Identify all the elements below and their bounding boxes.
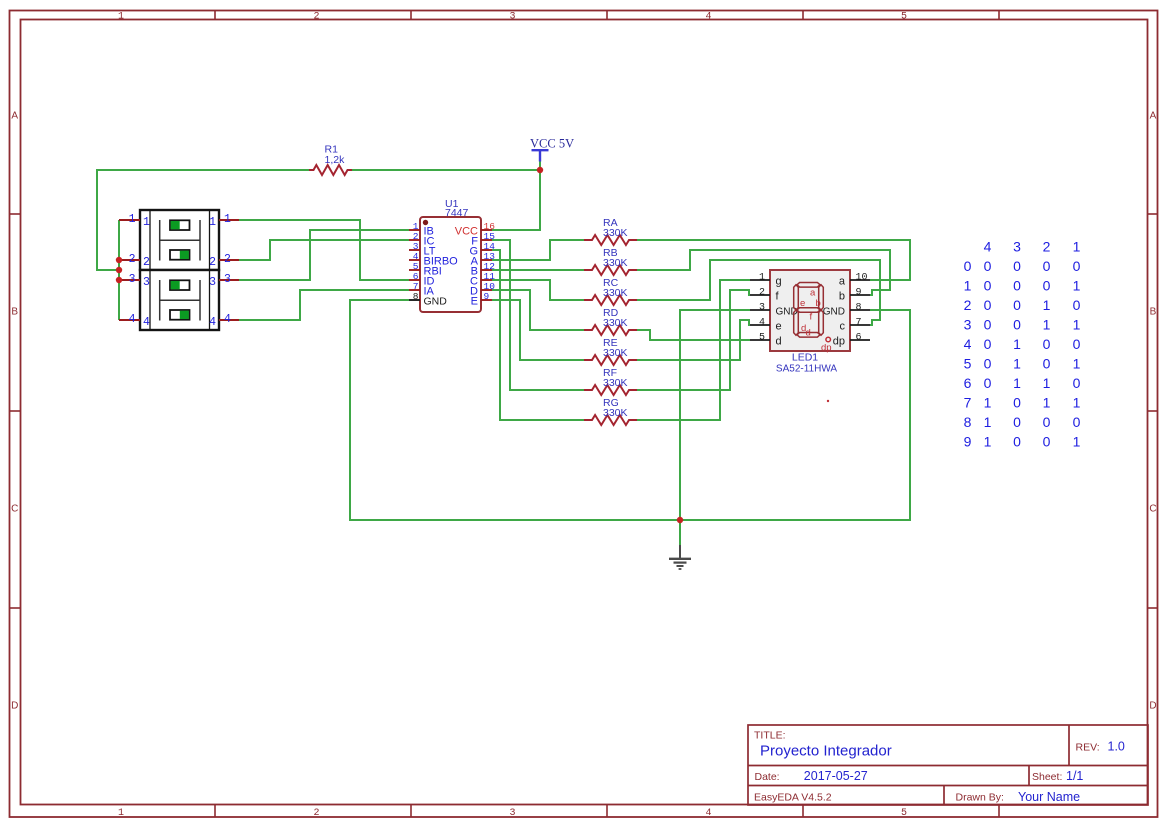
svg-text:5: 5	[901, 11, 907, 22]
svg-text:1: 1	[209, 216, 216, 229]
svg-text:1: 1	[1073, 434, 1081, 450]
svg-text:Date:: Date:	[755, 771, 780, 783]
svg-text:8: 8	[413, 291, 419, 302]
svg-text:9: 9	[484, 291, 490, 302]
svg-text:10: 10	[856, 273, 868, 284]
svg-text:1: 1	[1043, 297, 1051, 313]
svg-text:1: 1	[1073, 239, 1081, 255]
svg-text:D: D	[1149, 700, 1156, 711]
svg-text:3: 3	[759, 303, 765, 314]
svg-text:0: 0	[1013, 434, 1021, 450]
svg-text:TITLE:: TITLE:	[754, 730, 786, 742]
svg-text:0: 0	[1073, 414, 1081, 430]
svg-text:4: 4	[209, 316, 216, 329]
svg-text:Sheet:: Sheet:	[1032, 771, 1062, 783]
svg-text:2: 2	[964, 297, 972, 313]
svg-text:GND: GND	[823, 307, 845, 318]
svg-text:7: 7	[964, 395, 972, 411]
svg-text:2: 2	[313, 808, 319, 819]
svg-text:4: 4	[759, 318, 765, 329]
svg-text:0: 0	[1043, 356, 1051, 372]
svg-text:330K: 330K	[603, 377, 628, 389]
svg-text:2: 2	[224, 253, 231, 266]
svg-text:0: 0	[1043, 434, 1051, 450]
svg-text:6: 6	[964, 375, 972, 391]
svg-text:2: 2	[313, 11, 319, 22]
svg-text:1: 1	[1043, 317, 1051, 333]
svg-text:2: 2	[129, 253, 136, 266]
svg-text:Your Name: Your Name	[1018, 790, 1080, 804]
svg-text:0: 0	[1013, 317, 1021, 333]
svg-text:1: 1	[224, 213, 231, 226]
svg-text:e: e	[800, 298, 805, 309]
svg-text:B: B	[1150, 306, 1157, 317]
svg-text:1: 1	[1013, 375, 1021, 391]
svg-text:0: 0	[984, 336, 992, 352]
svg-text:e: e	[776, 321, 782, 333]
svg-text:0: 0	[1013, 297, 1021, 313]
svg-text:9: 9	[856, 288, 862, 299]
svg-text:a: a	[839, 276, 846, 288]
svg-text:1: 1	[1043, 375, 1051, 391]
svg-text:7: 7	[856, 318, 862, 329]
svg-text:2: 2	[209, 256, 216, 269]
svg-text:0: 0	[984, 278, 992, 294]
svg-text:330K: 330K	[603, 407, 628, 419]
svg-text:2: 2	[143, 256, 150, 269]
svg-text:4: 4	[705, 808, 711, 819]
svg-text:0: 0	[1043, 278, 1051, 294]
svg-text:1: 1	[1013, 356, 1021, 372]
svg-text:0: 0	[1073, 336, 1081, 352]
svg-text:4: 4	[705, 11, 711, 22]
svg-text:d: d	[806, 328, 811, 339]
svg-text:4: 4	[143, 316, 150, 329]
svg-text:GND: GND	[424, 296, 448, 308]
svg-text:0: 0	[1043, 336, 1051, 352]
svg-text:1: 1	[143, 216, 150, 229]
svg-text:4: 4	[984, 239, 992, 255]
svg-text:3: 3	[209, 276, 216, 289]
svg-text:5: 5	[964, 356, 972, 372]
svg-text:1: 1	[984, 395, 992, 411]
svg-text:330K: 330K	[603, 287, 628, 299]
svg-text:dp: dp	[833, 336, 845, 348]
svg-text:3: 3	[964, 317, 972, 333]
svg-text:C: C	[11, 503, 18, 514]
svg-text:1: 1	[1073, 395, 1081, 411]
svg-text:4: 4	[129, 313, 136, 326]
svg-text:330K: 330K	[603, 317, 628, 329]
svg-text:d: d	[776, 336, 782, 348]
svg-text:VCC 5V: VCC 5V	[530, 137, 574, 151]
svg-text:0: 0	[1013, 278, 1021, 294]
svg-text:0: 0	[1043, 258, 1051, 274]
svg-text:1: 1	[118, 808, 124, 819]
svg-text:8: 8	[964, 414, 972, 430]
svg-text:3: 3	[224, 273, 231, 286]
svg-text:Proyecto Integrador: Proyecto Integrador	[760, 743, 892, 760]
svg-text:0: 0	[984, 356, 992, 372]
svg-text:EasyEDA V4.5.2: EasyEDA V4.5.2	[754, 792, 832, 804]
svg-text:SA52-11HWA: SA52-11HWA	[776, 364, 837, 375]
svg-text:6: 6	[856, 333, 862, 344]
svg-text:330K: 330K	[603, 347, 628, 359]
svg-text:1: 1	[984, 434, 992, 450]
svg-text:1/1: 1/1	[1066, 769, 1083, 783]
svg-text:0: 0	[1073, 258, 1081, 274]
svg-text:0: 0	[984, 258, 992, 274]
svg-text:A: A	[1150, 110, 1157, 121]
svg-text:2: 2	[1043, 239, 1051, 255]
svg-text:0: 0	[1013, 395, 1021, 411]
svg-text:E: E	[471, 296, 478, 308]
svg-text:5: 5	[759, 333, 765, 344]
svg-text:1: 1	[1013, 336, 1021, 352]
svg-text:dp: dp	[821, 343, 832, 354]
svg-text:1: 1	[1073, 356, 1081, 372]
svg-text:B: B	[11, 306, 18, 317]
svg-text:1: 1	[1043, 395, 1051, 411]
svg-text:0: 0	[984, 375, 992, 391]
svg-text:2017-05-27: 2017-05-27	[804, 769, 868, 783]
svg-text:0: 0	[964, 258, 972, 274]
svg-text:1: 1	[1073, 278, 1081, 294]
svg-text:0: 0	[984, 317, 992, 333]
svg-text:0: 0	[1013, 258, 1021, 274]
svg-text:0: 0	[1073, 297, 1081, 313]
svg-text:3: 3	[509, 11, 515, 22]
svg-text:330K: 330K	[603, 257, 628, 269]
svg-text:1.0: 1.0	[1108, 740, 1125, 754]
svg-text:330K: 330K	[603, 227, 628, 239]
svg-text:1: 1	[984, 414, 992, 430]
svg-text:3: 3	[129, 273, 136, 286]
svg-text:b: b	[839, 291, 845, 303]
svg-text:c: c	[840, 321, 846, 333]
svg-text:g: g	[776, 276, 782, 288]
svg-text:Drawn By:: Drawn By:	[956, 792, 1004, 804]
svg-text:A: A	[11, 110, 18, 121]
svg-text:1,2k: 1,2k	[325, 154, 346, 166]
svg-text:3: 3	[143, 276, 150, 289]
svg-text:0: 0	[984, 297, 992, 313]
svg-text:REV:: REV:	[1076, 742, 1100, 754]
svg-text:4: 4	[224, 313, 231, 326]
svg-text:f: f	[810, 312, 813, 323]
svg-text:3: 3	[1013, 239, 1021, 255]
svg-text:0: 0	[1043, 414, 1051, 430]
svg-text:LED1: LED1	[792, 352, 818, 364]
svg-text:1: 1	[1073, 317, 1081, 333]
svg-text:3: 3	[509, 808, 515, 819]
svg-text:7447: 7447	[445, 207, 469, 219]
svg-text:0: 0	[1073, 375, 1081, 391]
svg-text:a: a	[810, 288, 816, 299]
svg-text:9: 9	[964, 434, 972, 450]
svg-text:4: 4	[964, 336, 972, 352]
svg-text:1: 1	[118, 11, 124, 22]
svg-text:C: C	[1149, 503, 1156, 514]
svg-text:1: 1	[759, 273, 765, 284]
svg-text:D: D	[11, 700, 18, 711]
svg-text:5: 5	[901, 808, 907, 819]
svg-text:0: 0	[1013, 414, 1021, 430]
svg-text:2: 2	[759, 288, 765, 299]
svg-text:1: 1	[129, 213, 136, 226]
svg-text:b: b	[816, 298, 821, 309]
svg-text:1: 1	[964, 278, 972, 294]
svg-text:8: 8	[856, 303, 862, 314]
